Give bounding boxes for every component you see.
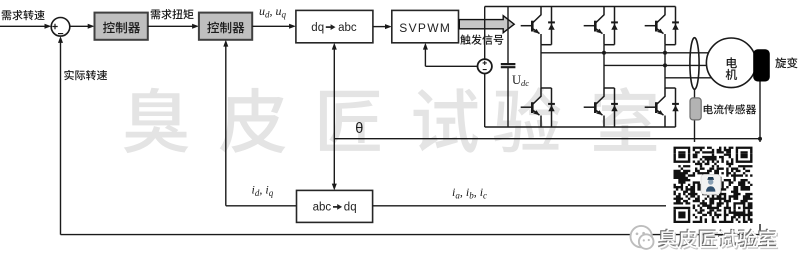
controller box 1 (控制器) <box>95 13 148 40</box>
controller box 2 (控制器) <box>199 13 252 40</box>
svg-text:θ: θ <box>355 121 363 137</box>
inverter top DC rail <box>485 6 676 8</box>
transistor Q1/D1 (phase A high) <box>521 7 555 45</box>
dq->abc transform box <box>296 10 373 42</box>
wire: i_dq vertical into controller2 <box>225 45 227 206</box>
logo text 臭皮匠试验室 white highlight layer <box>659 230 777 249</box>
QR code modules <box>674 147 753 223</box>
svg-text:dq: dq <box>311 22 324 34</box>
text 控制器 (box1) <box>103 22 140 34</box>
motor circle (电机) <box>706 38 756 88</box>
summing junction circle <box>51 18 70 37</box>
wire: phase B line to motor <box>604 64 712 66</box>
wire: input to summing junction <box>0 25 46 27</box>
text 机 (motor line2) <box>726 69 738 80</box>
text 需求转速 <box>2 10 45 20</box>
inverter bottom DC rail <box>485 126 676 128</box>
wire: resolver feedback vertical <box>759 82 761 235</box>
QR center avatar <box>701 175 721 195</box>
WeChat-style logo circles <box>631 226 654 249</box>
text 旋变 (resolver) <box>775 57 797 68</box>
svg-text:abc: abc <box>313 202 332 214</box>
inverter left DC rail (vertical) <box>484 7 486 60</box>
DC-link capacitor <box>501 7 516 128</box>
DC source circle with +/- <box>478 59 492 73</box>
current sensor block (gray) <box>690 98 701 120</box>
wire: dq-abc to SVPWM <box>373 26 386 28</box>
wire: summing junction to controller 1 <box>70 25 89 27</box>
wire: U_dc sense vertical into SVPWM <box>424 48 426 66</box>
text 需求扭矩 <box>151 9 194 19</box>
wire: controller1 to controller2 <box>148 25 193 27</box>
wire: actual speed vertical into summing junction <box>60 42 62 235</box>
wire: leg B midpoint vertical <box>603 45 605 88</box>
transistor Q4/D4 (phase B low) <box>584 88 618 127</box>
SVPWM box <box>392 10 459 42</box>
watermark text 臭皮匠试验室 (light gray, background) <box>124 87 656 153</box>
logo text 臭皮匠试验室 shadow <box>660 231 778 250</box>
transistor Q2/D2 (phase A low) <box>521 88 555 127</box>
svg-text:abc: abc <box>338 22 357 34</box>
wire: i_abc feedback horizontal <box>373 205 695 207</box>
wire: phase A line to motor <box>541 52 712 54</box>
junction dot theta/resolver line <box>758 137 762 141</box>
wire: speed feedback bottom line <box>61 234 761 236</box>
abc->dq transform box <box>297 190 373 222</box>
transistor Q3/D3 (phase B high) <box>584 7 618 45</box>
plus sign in summing junction <box>52 24 57 29</box>
svg-text:SVPWM: SVPWM <box>399 21 451 35</box>
QR code white background <box>666 142 768 224</box>
junction dots on phase lines <box>602 51 667 68</box>
fat gray trigger arrow SVPWM to inverter <box>459 16 514 33</box>
text 触发信号 <box>460 34 503 44</box>
text 电流传感器 <box>704 104 756 114</box>
wire: theta vertical double arrow between dq-abc and abc-dq <box>333 48 335 187</box>
wire: leg A midpoint vertical <box>540 45 542 88</box>
text 实际转速 <box>64 70 107 80</box>
wire: i_dq feedback horizontal <box>226 205 297 207</box>
wire: leg C midpoint vertical <box>664 45 666 88</box>
transistor Q5/D5 (phase C high) <box>645 7 679 45</box>
wire: phase C line to motor <box>665 77 712 79</box>
text 电 (motor line1) <box>727 57 737 68</box>
resolver block (black) <box>753 49 770 81</box>
wire: controller2 to dq-abc <box>252 25 290 27</box>
current sensor coil (ellipse) <box>690 38 699 90</box>
transistor Q6/D6 (phase C low) <box>645 88 679 127</box>
wire: current sensor vertical <box>694 89 696 206</box>
wire: theta horizontal from resolver <box>334 138 760 140</box>
text 控制器 (box2) <box>207 22 244 34</box>
minus sign in summing junction <box>58 33 63 35</box>
logo text 臭皮匠试验室 dark layer <box>658 228 776 247</box>
svg-text:dq: dq <box>344 202 357 214</box>
wire: U_dc sense horizontal <box>425 65 477 67</box>
